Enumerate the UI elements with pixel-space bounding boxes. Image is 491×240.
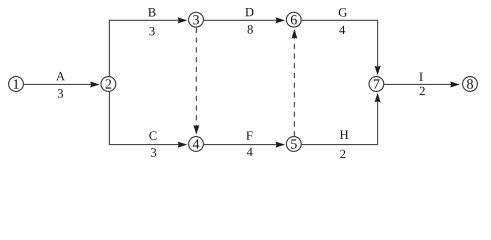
wire activity A (1 to 2)	[24, 81, 100, 87]
label C value 3	[149, 131, 156, 156]
label F value 4	[246, 131, 252, 156]
node 6	[286, 12, 301, 27]
dashed dummy wire (3 down to 4)	[193, 28, 199, 135]
wire activity I (7 to 8)	[384, 81, 460, 87]
node 5	[286, 137, 301, 152]
wire activity H (5 right then up to 7)	[302, 93, 381, 145]
label G value 4	[339, 8, 347, 34]
node 3	[189, 12, 204, 27]
label A value 3	[56, 72, 65, 98]
label H value 2	[340, 131, 348, 158]
node 8	[463, 77, 478, 92]
dashed dummy wire (5 up to 6)	[291, 29, 297, 136]
node 7	[369, 77, 384, 92]
label D value 8	[245, 8, 253, 34]
node 1	[9, 77, 24, 92]
wire activity G (6 right then down to 7)	[302, 20, 381, 75]
wire activity F (4 to 5)	[204, 142, 285, 148]
label B value 3	[148, 8, 155, 35]
node 4	[189, 137, 204, 152]
node 2	[101, 77, 116, 92]
wire activity D (3 to 6)	[204, 17, 285, 23]
wire activity B (2 up then right to 3)	[109, 17, 187, 76]
wire activity C (2 down then right to 4)	[109, 92, 187, 148]
label I value 2	[419, 73, 424, 95]
